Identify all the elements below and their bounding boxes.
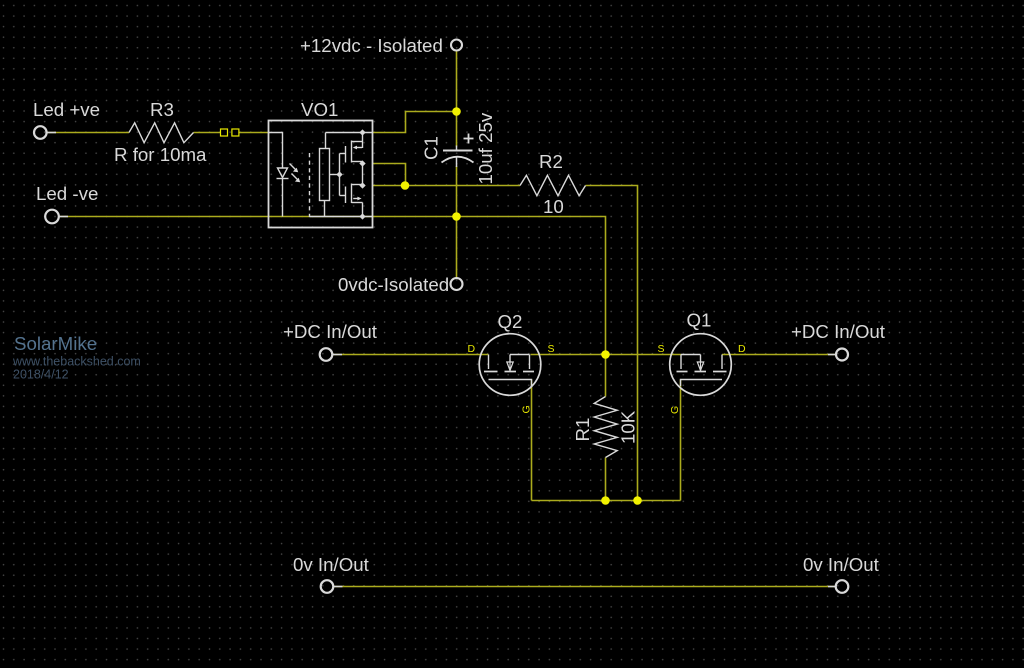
svg-text:SolarMike: SolarMike — [14, 333, 97, 354]
node junction VO1 output pins (405,185) — [401, 181, 410, 190]
Q2 drain lead — [488, 355, 490, 370]
terminal +DC In/Out left — [320, 348, 333, 361]
svg-text:Q2: Q2 — [498, 311, 523, 332]
terminal +12vdc - Isolated — [451, 40, 462, 51]
wire R1 bottom to gate rail — [605, 458, 607, 501]
terminal 0vdc-Isolated — [451, 278, 463, 290]
svg-text:10: 10 — [543, 196, 564, 217]
Q2 body top link — [510, 354, 530, 356]
wire Q1 drain to +DC In/Out right — [722, 354, 836, 356]
link square 2 after R3 — [232, 129, 239, 136]
wire R2 to gate net corner, down to gate rail — [586, 186, 638, 501]
Q1 body vertical — [700, 355, 702, 362]
VO1 internal bottom rail — [310, 216, 373, 218]
wire +DC In/Out left to Q2 drain — [332, 354, 488, 356]
VO1 lower drain connect — [352, 184, 363, 186]
VO1 LED anode lead — [269, 133, 283, 169]
svg-text:R for 10ma: R for 10ma — [114, 144, 207, 165]
node junction Q2-S Q1-S R1 (605,354) — [601, 350, 610, 359]
VO1 internal resistor top lead — [325, 133, 327, 149]
svg-text:Q1: Q1 — [687, 310, 712, 331]
node junction at +12v / VO1 pin (457,111) — [452, 107, 461, 116]
svg-text:R3: R3 — [150, 99, 174, 120]
wire Led -ve terminal to corner at x=605 down to source node — [59, 217, 606, 355]
capacitor C1 plus sign — [464, 138, 474, 140]
Q2 body vertical — [509, 355, 511, 362]
terminal 0v In/Out right — [836, 580, 849, 593]
capacitor C1 bottom lead stub — [456, 157, 458, 167]
wire 0v In/Out bus — [334, 586, 836, 588]
svg-text:R2: R2 — [539, 151, 563, 172]
wire +12vdc terminal down to node at (457,111) — [456, 51, 458, 112]
node junction R2 net on gate rail — [633, 496, 642, 505]
VO1 LED cathode bar — [277, 178, 289, 180]
Q2 drain bar — [484, 371, 498, 373]
VO1 right rail segment top — [362, 133, 364, 149]
VO1 upper source connect — [352, 161, 363, 163]
wire VO1 top pin to +12v node — [373, 112, 457, 133]
svg-text:Led -ve: Led -ve — [36, 183, 98, 204]
svg-text:D: D — [738, 343, 746, 355]
Q2 body bar — [505, 371, 517, 373]
wire VO1 mid pin A down to node (405,185) — [373, 164, 406, 186]
svg-text:S: S — [658, 343, 665, 355]
svg-text:+12vdc - Isolated: +12vdc - Isolated — [300, 35, 443, 56]
resistor R1 — [594, 397, 617, 458]
Q1 body arrow — [697, 362, 703, 370]
resistor R3 — [129, 123, 194, 143]
svg-text:+DC In/Out: +DC In/Out — [791, 321, 886, 342]
Q1 drain lead — [721, 355, 723, 370]
wire VO1 mid pin B to node (405,185) — [373, 185, 406, 187]
node junction C1 bottom / Led -ve (457,216.5) — [452, 212, 461, 221]
VO1 upper body arrow — [355, 147, 363, 149]
Q1 body bar — [695, 371, 707, 373]
node junction R1 bottom on gate rail — [601, 496, 610, 505]
VO1 pin diamond bottom — [360, 214, 364, 218]
VO1 upper channel bar — [351, 141, 353, 163]
VO1 gate top stub — [340, 153, 346, 155]
terminal stub Led -ve — [59, 216, 68, 218]
VO1 upper gate bar — [345, 146, 347, 163]
Q1 source bar — [677, 371, 688, 373]
VO1 lower source connect — [352, 202, 363, 204]
Q1 source lead — [680, 355, 682, 370]
VO1 internal resistor rect — [320, 149, 330, 201]
VO1 gate vertical — [339, 154, 341, 196]
capacitor C1 curved plate — [442, 157, 474, 163]
VO1 gate bottom stub — [340, 195, 346, 197]
VO1 pin diamond top — [360, 130, 364, 134]
svg-text:S: S — [548, 343, 555, 355]
transistor Q2 circle — [479, 334, 541, 396]
terminal +DC In/Out right — [836, 349, 848, 361]
resistor R2 — [520, 175, 586, 195]
terminal Led -ve — [45, 210, 59, 224]
svg-text:0vdc-Isolated: 0vdc-Isolated — [338, 274, 449, 295]
svg-text:G: G — [669, 406, 681, 414]
terminal 0v In/Out left — [321, 580, 334, 593]
VO1 pin diamond mid B — [360, 183, 364, 187]
wire Q1 gate drop — [680, 380, 682, 501]
transistor Q1 circle — [670, 334, 732, 396]
wire Q2 source to Q1 source through node — [531, 354, 682, 356]
VO1 right rail segment bottom — [362, 203, 364, 217]
svg-text:10uf 25v: 10uf 25v — [475, 112, 496, 184]
VO1 gate feed line — [330, 174, 340, 176]
svg-text:VO1: VO1 — [301, 99, 338, 120]
capacitor C1 top plate — [443, 150, 473, 152]
terminal stub 0v right — [828, 586, 836, 588]
wire link squares to VO1 pin1 — [239, 132, 268, 134]
optocoupler VO1 box — [269, 121, 373, 228]
wire Led +ve terminal to R3 — [47, 132, 129, 134]
capacitor C1 top lead stub — [456, 146, 458, 151]
Q1 gate bar — [681, 380, 723, 387]
wire source node down to R1 — [605, 355, 607, 397]
Q2 body arrow — [507, 362, 513, 370]
wire Q2 gate drop — [531, 380, 533, 501]
VO1 LED cathode lead — [282, 179, 284, 217]
VO1 lower body arrow — [353, 198, 360, 200]
wire R3 to yellow link squares — [194, 132, 221, 134]
svg-text:www.thebackshed.com: www.thebackshed.com — [12, 355, 141, 369]
Q1 drain bar — [713, 371, 727, 373]
VO1 LED triangle — [278, 168, 288, 178]
Q1 body top link — [681, 354, 701, 356]
Q2 source lead — [529, 355, 531, 370]
VO1 right rail segment mid — [362, 162, 364, 186]
svg-text:2018/4/12: 2018/4/12 — [13, 368, 69, 382]
terminal Led +ve — [34, 126, 47, 139]
svg-text:R1: R1 — [572, 418, 593, 442]
terminal stub +DC left — [332, 354, 342, 356]
wire gate rail — [532, 500, 681, 502]
VO1 lower channel bar — [351, 184, 353, 204]
VO1 pin diamond mid A — [360, 161, 364, 165]
svg-text:G: G — [521, 405, 533, 413]
VO1 isolation dashed line — [309, 153, 311, 217]
terminal stub 0v left — [333, 586, 342, 588]
svg-text:C1: C1 — [421, 136, 442, 160]
wire C1 top lead — [456, 112, 458, 147]
svg-text:Led +ve: Led +ve — [33, 99, 100, 120]
svg-text:0v In/Out: 0v In/Out — [803, 554, 880, 575]
Q2 gate bar — [489, 380, 532, 387]
Q2 source bar — [523, 371, 534, 373]
wire C1 bottom lead down to 0vdc terminal — [456, 166, 458, 278]
svg-text:10K: 10K — [618, 410, 639, 444]
VO1 lower gate bar — [345, 187, 347, 204]
link square 1 after R3 — [221, 129, 228, 136]
VO1 light arrow 2 — [292, 174, 299, 181]
VO1 internal resistor bottom lead — [324, 201, 326, 217]
VO1 light arrow 1 — [290, 164, 297, 171]
terminal stub Led +ve — [47, 132, 56, 134]
wire node (405,185) to R2 — [405, 185, 520, 187]
VO1 internal top rail — [326, 132, 373, 134]
VO1 upper drain connect — [352, 141, 363, 143]
svg-text:0v In/Out: 0v In/Out — [293, 554, 370, 575]
terminal stub +DC right — [828, 354, 836, 356]
svg-text:+DC In/Out: +DC In/Out — [283, 321, 378, 342]
VO1 gate node diamond — [337, 172, 341, 176]
svg-text:D: D — [468, 343, 476, 355]
